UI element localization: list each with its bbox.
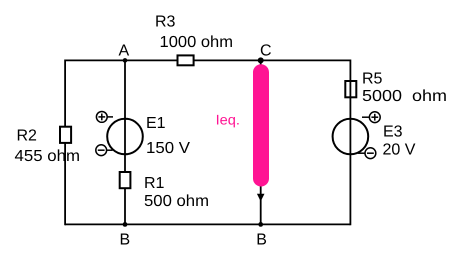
svg-text:500 ohm: 500 ohm — [144, 193, 209, 210]
node B left — [123, 222, 128, 227]
svg-text:R5: R5 — [362, 71, 383, 88]
wire bottom — [65, 223, 350, 225]
svg-text:R3: R3 — [155, 13, 176, 30]
Ieq arrow head — [257, 194, 265, 202]
E3 minus terminal — [358, 148, 376, 159]
svg-text:B: B — [120, 232, 131, 249]
svg-text:5000 ohm: 5000 ohm — [362, 88, 447, 105]
svg-text:E1: E1 — [146, 115, 166, 132]
svg-text:455 ohm: 455 ohm — [15, 148, 81, 165]
svg-text:A: A — [119, 42, 130, 59]
voltage source E1 — [107, 119, 143, 155]
svg-text:1000 ohm: 1000 ohm — [160, 34, 234, 51]
svg-text:C: C — [260, 43, 272, 60]
svg-text:Ieq.: Ieq. — [216, 112, 240, 128]
svg-text:150 V: 150 V — [146, 140, 190, 157]
wire middle branch A-B — [124, 60, 126, 224]
current source Ieq highlight bar — [253, 72, 269, 178]
node A — [123, 58, 128, 63]
E3 plus terminal — [362, 112, 380, 123]
node B right — [258, 222, 263, 227]
E1 plus terminal — [96, 112, 113, 123]
resistor R5 — [345, 81, 356, 97]
svg-text:E3: E3 — [383, 123, 403, 140]
wire right — [349, 60, 351, 226]
svg-text:20 V: 20 V — [383, 142, 416, 159]
voltage source E3 — [333, 119, 369, 155]
svg-text:R1: R1 — [144, 175, 165, 192]
resistor R1 — [120, 172, 131, 188]
wire left — [64, 60, 66, 226]
svg-text:B: B — [256, 232, 267, 249]
wire top — [65, 59, 350, 61]
resistor R3 — [178, 55, 194, 65]
E1 minus terminal — [96, 145, 113, 156]
wire C-B branch — [260, 60, 262, 224]
resistor R2 — [60, 127, 71, 143]
svg-text:R2: R2 — [17, 127, 38, 144]
node C — [258, 57, 264, 63]
